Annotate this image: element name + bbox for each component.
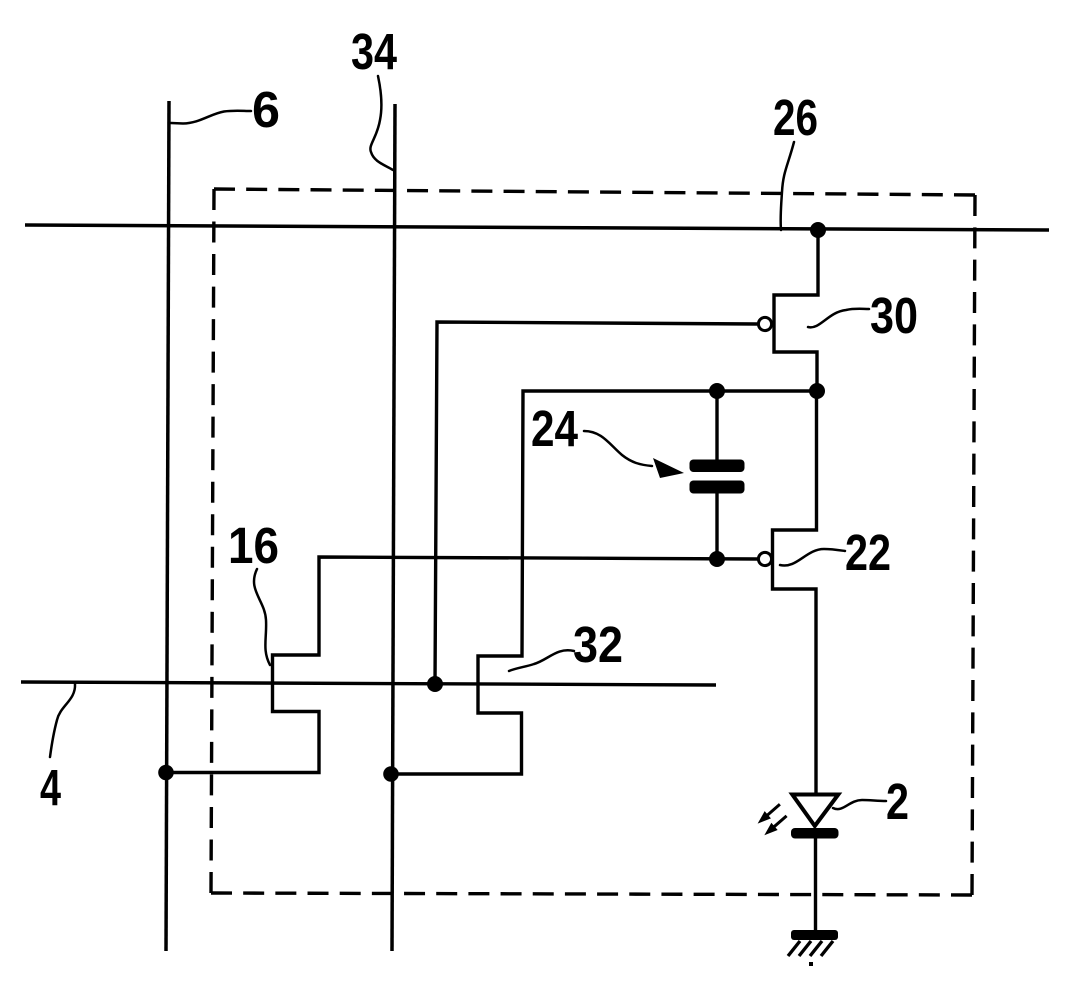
svg-text:24: 24 [531,400,579,457]
svg-text:6: 6 [252,81,280,138]
svg-text:32: 32 [573,616,623,673]
svg-text:2: 2 [886,773,909,830]
svg-text:30: 30 [870,287,918,344]
svg-text:16: 16 [228,517,279,574]
svg-text:22: 22 [845,524,891,581]
svg-text:4: 4 [40,759,61,816]
svg-text:26: 26 [773,89,818,146]
svg-text:34: 34 [351,23,398,80]
